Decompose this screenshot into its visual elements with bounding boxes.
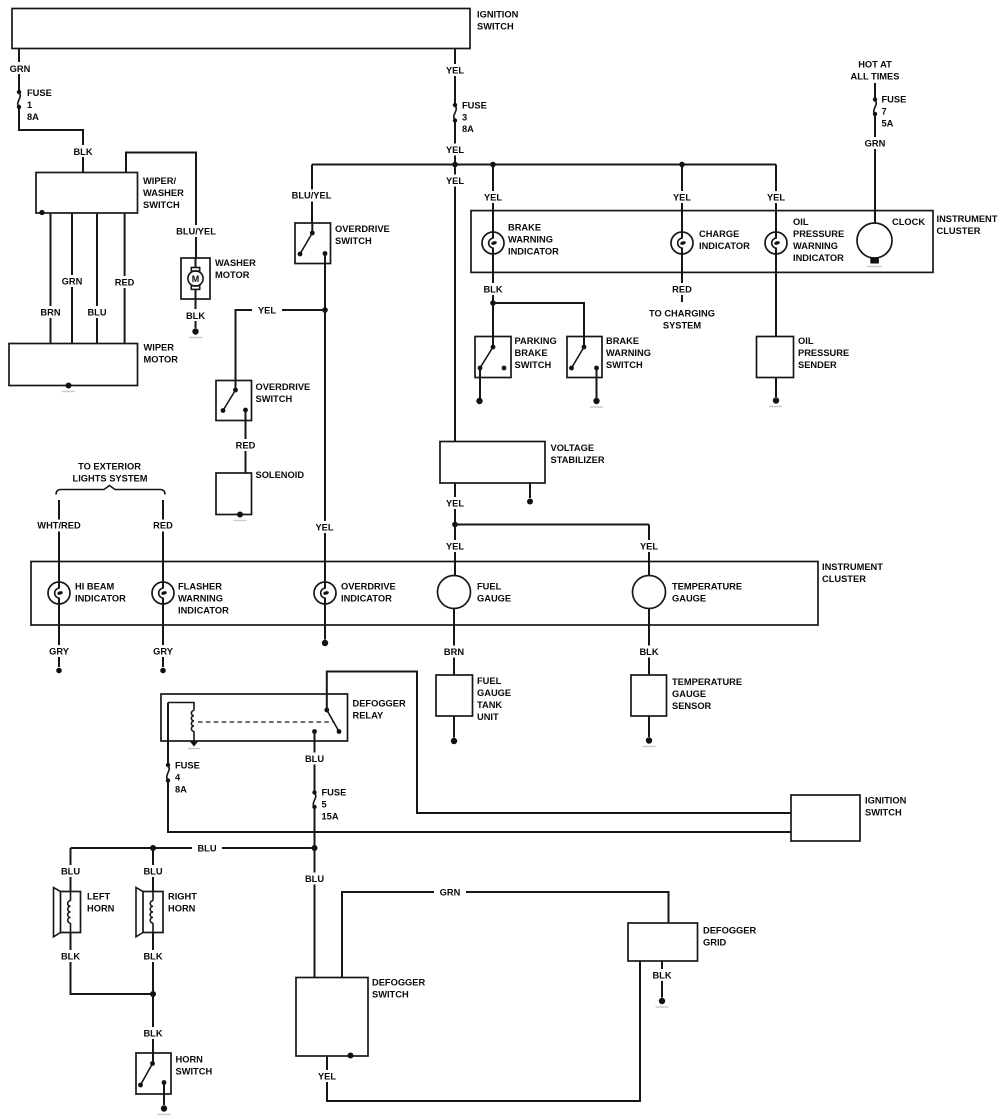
gauge temperature xyxy=(633,576,743,609)
svg-text:IGNITION: IGNITION xyxy=(865,796,907,806)
node brake indicator split xyxy=(490,300,496,306)
svg-text:YEL: YEL xyxy=(484,193,502,203)
fuse 7 5A xyxy=(873,95,906,129)
wire GRN fuse 7 to clock xyxy=(860,116,890,224)
svg-text:RELAY: RELAY xyxy=(353,711,384,721)
fuse 5 15A xyxy=(312,788,346,822)
svg-text:M: M xyxy=(192,274,200,284)
svg-text:PARKING: PARKING xyxy=(515,336,557,346)
svg-text:SOLENOID: SOLENOID xyxy=(256,470,305,480)
svg-text:FUSE: FUSE xyxy=(27,88,52,98)
node bus/fuse3 xyxy=(452,162,458,168)
wire GRN defogger switch to grid xyxy=(342,886,669,978)
wire to brake warning switch xyxy=(493,303,584,337)
wire GRY hi beam down xyxy=(45,598,73,673)
svg-text:ALL TIMES: ALL TIMES xyxy=(851,72,900,82)
svg-text:8A: 8A xyxy=(462,124,474,134)
wiper motor box xyxy=(9,343,178,392)
svg-text:BLU: BLU xyxy=(143,867,162,877)
svg-text:HORN: HORN xyxy=(87,904,115,914)
svg-text:GRN: GRN xyxy=(865,139,886,149)
relay switch contacts xyxy=(312,694,341,734)
svg-text:BLK: BLK xyxy=(73,147,92,157)
wire BLU relay output xyxy=(301,732,328,791)
op oil pressure warning indicator lamp xyxy=(765,217,844,263)
svg-text:GAUGE: GAUGE xyxy=(477,688,511,698)
svg-text:GRY: GRY xyxy=(153,647,174,657)
svg-text:GRN: GRN xyxy=(62,277,83,287)
svg-text:3: 3 xyxy=(462,113,467,123)
svg-text:SWITCH: SWITCH xyxy=(477,22,514,32)
defogger relay box xyxy=(161,694,406,741)
wire to parking brake switch xyxy=(492,303,494,337)
to exterior lights system label xyxy=(73,462,148,484)
svg-text:SWITCH: SWITCH xyxy=(143,200,180,210)
node horn bus right horn xyxy=(150,845,156,851)
wire RED charge indicator to charging system xyxy=(649,248,715,331)
svg-text:MOTOR: MOTOR xyxy=(215,270,250,280)
svg-text:BLK: BLK xyxy=(652,971,671,981)
svg-text:HI BEAM: HI BEAM xyxy=(75,582,115,592)
wire RED to flasher warning indicator xyxy=(149,500,177,562)
wire BLU wiper switch to motor xyxy=(84,213,110,344)
svg-text:INSTRUMENT: INSTRUMENT xyxy=(937,214,998,224)
svg-text:TO CHARGING: TO CHARGING xyxy=(649,309,715,319)
node on wiper/washer switch xyxy=(39,210,44,215)
wire YEL split to temperature gauge branch xyxy=(455,524,649,526)
relay dashed link xyxy=(198,721,333,723)
wire WHT/RED to hi beam indicator xyxy=(36,500,82,562)
wire GRN from ignition switch xyxy=(6,49,34,91)
horn switch xyxy=(136,1053,212,1094)
svg-text:INDICATOR: INDICATOR xyxy=(699,241,750,251)
wire YEL bus xyxy=(312,164,776,166)
wire YEL jog to lower overdrive switch xyxy=(236,304,326,381)
svg-text:OVERDRIVE: OVERDRIVE xyxy=(341,582,396,592)
instrument cluster (upper) box xyxy=(471,211,998,273)
wire sensor ground xyxy=(643,716,656,747)
svg-text:SWITCH: SWITCH xyxy=(256,394,293,404)
svg-text:SENSOR: SENSOR xyxy=(672,701,712,711)
svg-text:BRAKE: BRAKE xyxy=(606,336,639,346)
clock xyxy=(857,217,925,267)
wire overdrive indicator down xyxy=(322,598,328,646)
wire BLK to horn switch xyxy=(140,994,167,1053)
svg-text:8A: 8A xyxy=(175,785,187,795)
wire YEL bus to brake warning indicator xyxy=(480,165,507,239)
gauge fuel xyxy=(438,576,512,609)
svg-text:WARNING: WARNING xyxy=(178,594,223,604)
wire BLU to right horn xyxy=(140,848,167,892)
wire horn switch ground xyxy=(158,1083,171,1115)
wire relay left pin down fuse 4 feed xyxy=(167,703,169,764)
node fuse5/horn BLU junction xyxy=(312,845,318,851)
svg-text:OIL: OIL xyxy=(793,217,809,227)
svg-text:SWITCH: SWITCH xyxy=(865,808,902,818)
wire YEL ignition switch to fuse 3 xyxy=(442,49,469,104)
wire GRY flasher down xyxy=(149,598,177,673)
svg-text:LIGHTS SYSTEM: LIGHTS SYSTEM xyxy=(73,474,148,484)
ignition switch (right) box xyxy=(791,795,907,841)
motor M symbol xyxy=(188,258,203,299)
svg-text:FUSE: FUSE xyxy=(462,101,487,111)
svg-text:BLK: BLK xyxy=(186,311,205,321)
svg-text:SWITCH: SWITCH xyxy=(515,360,552,370)
lamp flasher warning indicator xyxy=(152,562,229,616)
fuse 3 8A xyxy=(453,101,487,135)
svg-text:BRAKE: BRAKE xyxy=(515,348,548,358)
svg-text:CLUSTER: CLUSTER xyxy=(937,226,981,236)
wire YEL bus to charge indicator xyxy=(669,165,696,239)
svg-text:FUSE: FUSE xyxy=(882,95,907,105)
svg-text:GAUGE: GAUGE xyxy=(672,594,706,604)
svg-text:INDICATOR: INDICATOR xyxy=(793,253,844,263)
svg-text:PRESSURE: PRESSURE xyxy=(793,229,844,239)
op brake warning indicator lamp xyxy=(482,223,559,257)
wire BLK washer motor ground xyxy=(182,299,209,338)
svg-text:BRN: BRN xyxy=(444,647,464,657)
svg-text:BLK: BLK xyxy=(639,647,658,657)
svg-text:SWITCH: SWITCH xyxy=(606,360,643,370)
svg-text:FLASHER: FLASHER xyxy=(178,582,222,592)
svg-text:YEL: YEL xyxy=(315,523,333,533)
wire tank unit ground xyxy=(451,716,457,744)
lamp hi beam indicator xyxy=(48,562,126,605)
svg-text:RED: RED xyxy=(153,521,173,531)
wire BLK left horn down xyxy=(57,933,153,995)
svg-text:FUEL: FUEL xyxy=(477,676,502,686)
svg-text:BLK: BLK xyxy=(61,952,80,962)
svg-text:LEFT: LEFT xyxy=(87,892,111,902)
fuel gauge tank unit box xyxy=(436,675,511,722)
wire YEL to temperature gauge xyxy=(636,525,663,576)
svg-text:SYSTEM: SYSTEM xyxy=(663,321,701,331)
svg-text:7: 7 xyxy=(882,107,887,117)
svg-text:SWITCH: SWITCH xyxy=(335,236,372,246)
node bus/charge xyxy=(679,162,685,168)
wiper/washer switch box xyxy=(36,173,184,214)
svg-text:5: 5 xyxy=(322,800,327,810)
wire oil pressure indicator to sender xyxy=(775,248,777,337)
svg-text:RED: RED xyxy=(115,278,135,288)
svg-text:YEL: YEL xyxy=(446,176,464,186)
wire YEL defogger switch to grid return xyxy=(314,961,641,1101)
voltage stabilizer box xyxy=(440,442,605,484)
svg-text:CHARGE: CHARGE xyxy=(699,229,739,239)
svg-text:BRN: BRN xyxy=(40,308,60,318)
svg-text:WIPER: WIPER xyxy=(144,343,175,353)
wire BRN wiper switch to motor xyxy=(37,213,64,344)
wire GRN wiper switch to motor xyxy=(58,213,86,344)
svg-text:SWITCH: SWITCH xyxy=(176,1067,213,1077)
washer motor box xyxy=(181,258,256,299)
svg-text:YEL: YEL xyxy=(318,1072,336,1082)
wire RED wiper switch to motor xyxy=(111,213,138,344)
wire YEL bus down to voltage stabilizer xyxy=(442,165,469,442)
svg-text:WARNING: WARNING xyxy=(793,241,838,251)
left horn xyxy=(54,888,115,937)
overdrive switch (lower) xyxy=(216,381,310,421)
op charge indicator lamp xyxy=(671,229,750,254)
wire BLU horn bus xyxy=(71,842,315,854)
svg-text:BRAKE: BRAKE xyxy=(508,223,541,233)
solenoid box xyxy=(216,470,304,521)
svg-text:GAUGE: GAUGE xyxy=(477,594,511,604)
svg-text:SENDER: SENDER xyxy=(798,360,837,370)
svg-text:VOLTAGE: VOLTAGE xyxy=(551,443,595,453)
wire fuse 5 down to defogger switch xyxy=(301,809,328,978)
svg-text:HORN: HORN xyxy=(176,1055,204,1065)
svg-text:INDICATOR: INDICATOR xyxy=(75,594,126,604)
defogger grid box xyxy=(628,923,756,961)
svg-text:GRN: GRN xyxy=(440,888,461,898)
svg-text:BLK: BLK xyxy=(143,952,162,962)
svg-text:INSTRUMENT: INSTRUMENT xyxy=(822,562,883,572)
svg-text:RED: RED xyxy=(672,285,692,295)
right horn xyxy=(136,888,197,937)
svg-text:YEL: YEL xyxy=(446,542,464,552)
svg-text:WARNING: WARNING xyxy=(508,235,553,245)
fuse 1 8A xyxy=(17,88,52,122)
svg-text:YEL: YEL xyxy=(767,193,785,203)
svg-text:GRY: GRY xyxy=(49,647,70,657)
svg-text:WASHER: WASHER xyxy=(215,258,256,268)
defogger switch box xyxy=(296,978,425,1059)
wire oil pressure sender ground xyxy=(769,378,782,407)
svg-text:HOT AT: HOT AT xyxy=(858,60,892,70)
svg-text:INDICATOR: INDICATOR xyxy=(178,606,229,616)
svg-text:BLU: BLU xyxy=(305,874,324,884)
temperature gauge sensor box xyxy=(631,675,742,716)
svg-text:BLU: BLU xyxy=(87,308,106,318)
svg-text:WASHER: WASHER xyxy=(143,188,184,198)
svg-text:8A: 8A xyxy=(27,112,39,122)
node YEL split xyxy=(452,522,458,528)
svg-text:DEFOGGER: DEFOGGER xyxy=(703,926,756,936)
stub voltage stabilizer second pin xyxy=(527,483,533,505)
oil pressure sender box xyxy=(757,336,850,378)
node bus/brake warning xyxy=(490,162,496,168)
node YEL jog junction xyxy=(322,307,328,313)
wire BLK temperature gauge to sensor xyxy=(635,609,663,676)
svg-text:GAUGE: GAUGE xyxy=(672,689,706,699)
wire YEL long down to overdrive indicator xyxy=(311,310,338,588)
wire BLK right horn down xyxy=(140,933,167,992)
node horns join xyxy=(150,991,156,997)
svg-text:BLU: BLU xyxy=(305,754,324,764)
wire RED overdrive switch to solenoid xyxy=(232,410,259,473)
brace xyxy=(56,486,165,495)
wire relay top feed to ignition switch 2 xyxy=(327,672,791,814)
svg-text:YEL: YEL xyxy=(258,306,276,316)
svg-text:1: 1 xyxy=(27,100,32,110)
svg-text:OIL: OIL xyxy=(798,336,814,346)
svg-text:OVERDRIVE: OVERDRIVE xyxy=(256,382,311,392)
svg-text:DEFOGGER: DEFOGGER xyxy=(353,699,406,709)
svg-text:WARNING: WARNING xyxy=(606,348,651,358)
svg-text:FUSE: FUSE xyxy=(175,761,200,771)
svg-text:GRN: GRN xyxy=(10,64,31,74)
svg-text:WIPER/: WIPER/ xyxy=(143,176,176,186)
svg-text:YEL: YEL xyxy=(446,145,464,155)
svg-text:PRESSURE: PRESSURE xyxy=(798,348,849,358)
svg-text:TEMPERATURE: TEMPERATURE xyxy=(672,677,742,687)
svg-text:HORN: HORN xyxy=(168,904,196,914)
svg-text:BLK: BLK xyxy=(143,1029,162,1039)
parking brake switch xyxy=(475,336,557,378)
svg-text:FUEL: FUEL xyxy=(477,582,502,592)
svg-text:DEFOGGER: DEFOGGER xyxy=(372,978,425,988)
svg-text:BLU/YEL: BLU/YEL xyxy=(292,191,332,201)
wire overdrive switch out xyxy=(324,254,326,311)
brake warning switch xyxy=(567,336,651,378)
svg-text:CLUSTER: CLUSTER xyxy=(822,574,866,584)
wire BLU to left horn xyxy=(57,848,84,892)
wire fuse 4 to ignition switch 2 xyxy=(168,782,791,832)
wire YEL stabilizer down xyxy=(442,483,469,522)
svg-text:TO EXTERIOR: TO EXTERIOR xyxy=(78,462,141,472)
svg-text:BLU: BLU xyxy=(197,844,216,854)
svg-text:5A: 5A xyxy=(882,119,894,129)
fuse 4 8A xyxy=(166,761,200,795)
svg-text:4: 4 xyxy=(175,773,181,783)
svg-text:RIGHT: RIGHT xyxy=(168,892,197,902)
wire YEL fuse 3 to bus xyxy=(442,122,469,165)
svg-text:BLU/YEL: BLU/YEL xyxy=(176,227,216,237)
wire fuse1 to wiper/washer switch xyxy=(19,109,96,173)
svg-text:CLOCK: CLOCK xyxy=(892,217,925,227)
wire BLK defogger grid ground xyxy=(649,961,676,1007)
svg-text:YEL: YEL xyxy=(446,66,464,76)
svg-text:SWITCH: SWITCH xyxy=(372,990,409,1000)
svg-text:OVERDRIVE: OVERDRIVE xyxy=(335,224,390,234)
hot at all times feed xyxy=(851,60,900,98)
relay coil xyxy=(168,703,200,749)
wire BLU/YEL to washer motor xyxy=(126,153,218,259)
ignition switch (top) box xyxy=(12,9,519,49)
wire BRN fuel gauge to tank unit xyxy=(440,609,468,676)
wire BLK brake warning indicator down xyxy=(480,248,507,301)
svg-text:TANK: TANK xyxy=(477,700,502,710)
svg-text:15A: 15A xyxy=(322,812,339,822)
svg-text:INDICATOR: INDICATOR xyxy=(508,247,559,257)
svg-text:MOTOR: MOTOR xyxy=(144,355,179,365)
wire YEL bus to oil pressure warning indicator xyxy=(763,165,790,239)
svg-text:YEL: YEL xyxy=(446,499,464,509)
wire parking brake switch ground xyxy=(476,368,482,404)
overdrive switch (upper) xyxy=(295,223,390,264)
svg-text:FUSE: FUSE xyxy=(322,788,347,798)
wire brake warning switch ground xyxy=(590,368,603,407)
wire YEL to fuel gauge xyxy=(442,525,469,576)
svg-text:BLK: BLK xyxy=(483,285,502,295)
svg-text:IGNITION: IGNITION xyxy=(477,10,519,20)
svg-text:RED: RED xyxy=(236,441,256,451)
svg-text:UNIT: UNIT xyxy=(477,712,499,722)
svg-text:YEL: YEL xyxy=(640,542,658,552)
lamp overdrive indicator xyxy=(314,582,396,605)
svg-text:GRID: GRID xyxy=(703,938,727,948)
svg-text:BLU: BLU xyxy=(61,867,80,877)
wire BLU/YEL bus to overdrive switch xyxy=(289,165,334,224)
svg-text:INDICATOR: INDICATOR xyxy=(341,594,392,604)
svg-text:STABILIZER: STABILIZER xyxy=(551,455,605,465)
svg-text:YEL: YEL xyxy=(673,193,691,203)
svg-text:TEMPERATURE: TEMPERATURE xyxy=(672,582,742,592)
instrument cluster (lower) box xyxy=(31,562,883,626)
svg-text:WHT/RED: WHT/RED xyxy=(37,521,81,531)
